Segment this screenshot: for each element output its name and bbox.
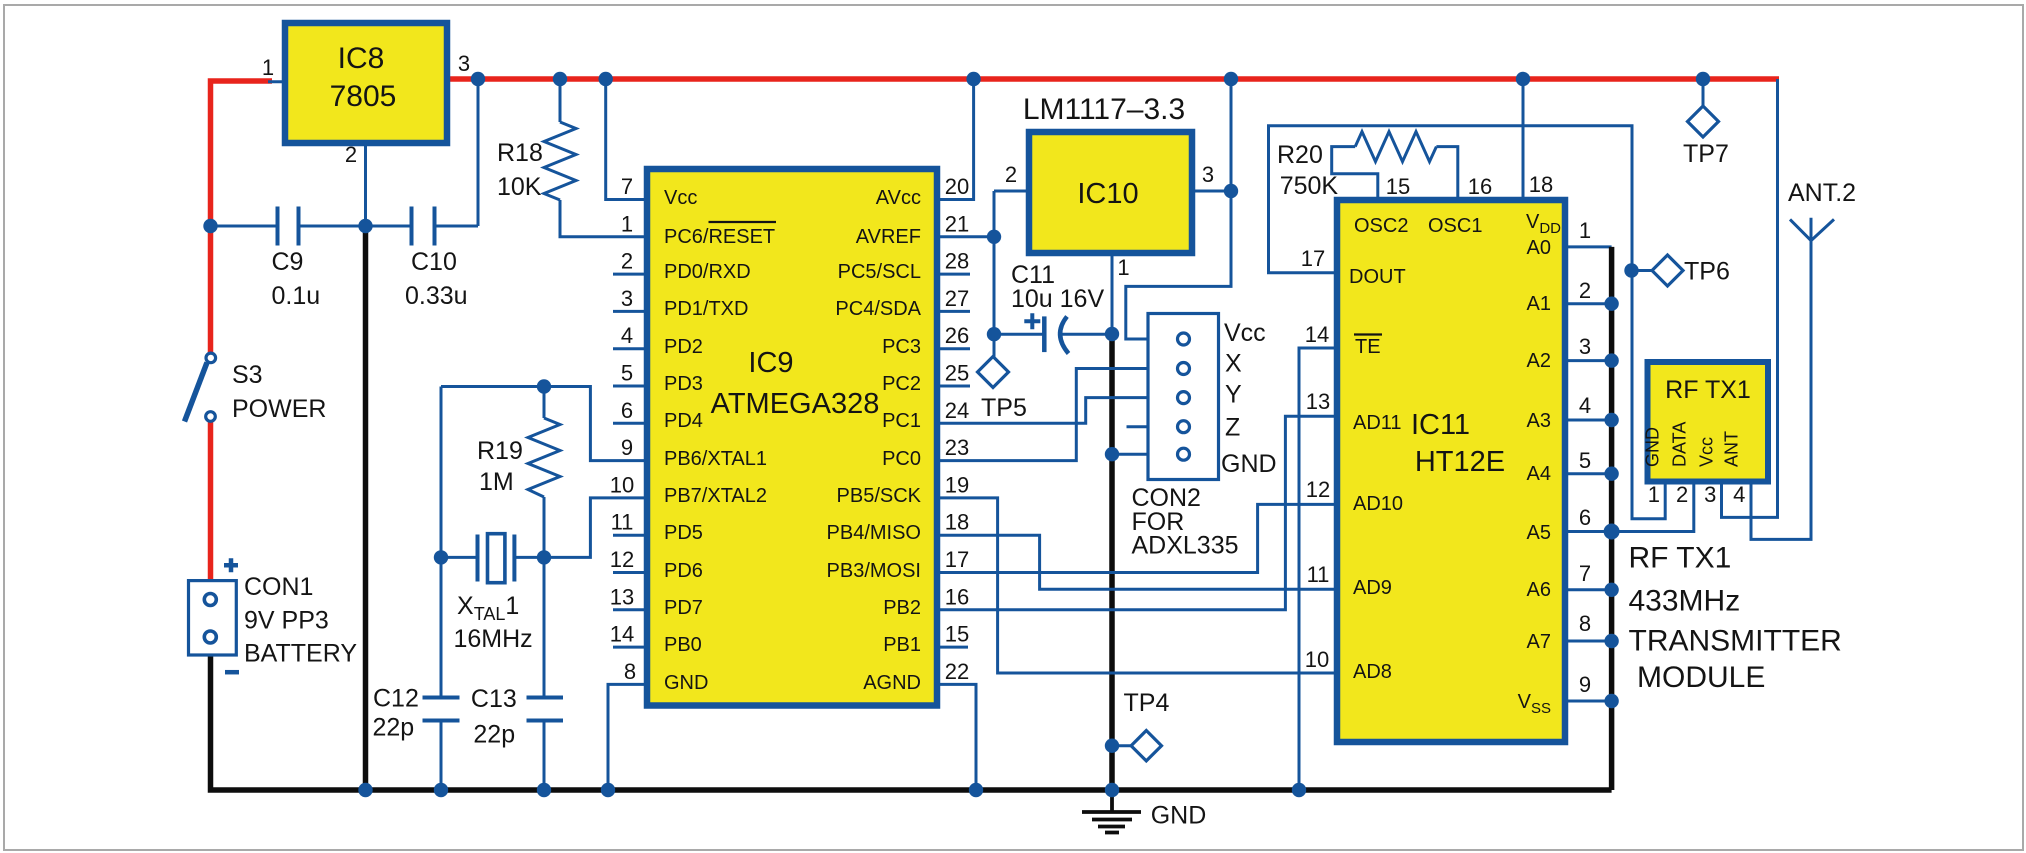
svg-text:GND: GND — [1221, 450, 1277, 478]
wire IC9 pin23 PC0 to CON2 X — [937, 369, 1148, 461]
svg-text:PC4/SDA: PC4/SDA — [835, 298, 921, 320]
svg-text:C10: C10 — [411, 248, 457, 276]
svg-text:PC3: PC3 — [882, 336, 921, 358]
svg-text:4: 4 — [1579, 393, 1591, 418]
wire HT12E A3 stub — [1565, 419, 1612, 422]
wire TP5 stem — [993, 334, 996, 357]
wire R18 bottom to IC9 pin1 — [560, 200, 647, 237]
svg-text:AD11: AD11 — [1353, 412, 1402, 434]
svg-text:4: 4 — [1733, 482, 1745, 507]
svg-text:POWER: POWER — [232, 395, 326, 423]
svg-text:GND: GND — [664, 672, 708, 694]
wire HT12E A4 stub — [1565, 472, 1612, 475]
wire IC8 pin2 down to C9/C10 node — [364, 143, 367, 226]
svg-text:C9: C9 — [272, 248, 304, 276]
svg-text:9: 9 — [1579, 672, 1591, 697]
svg-text:OSC1: OSC1 — [1428, 215, 1482, 237]
svg-text:16MHz: 16MHz — [454, 625, 533, 653]
svg-text:C13: C13 — [471, 685, 517, 713]
svg-text:TE: TE — [1355, 336, 1381, 358]
svg-text:22: 22 — [945, 659, 969, 684]
svg-text:PB3/MOSI: PB3/MOSI — [827, 560, 921, 582]
svg-text:OSC2: OSC2 — [1354, 215, 1408, 237]
svg-text:Z: Z — [1225, 414, 1240, 442]
node CON2 GND junction — [1105, 447, 1119, 461]
node AVREF junction — [987, 230, 1001, 244]
svg-text:2: 2 — [1005, 162, 1017, 187]
wire IC9 pin8 GND to bus — [608, 684, 647, 790]
wire C9/C10 row — [211, 79, 479, 226]
wire R19 leads — [543, 387, 546, 558]
svg-text:A6: A6 — [1527, 579, 1551, 601]
svg-text:MODULE: MODULE — [1637, 661, 1765, 694]
svg-text:PD4: PD4 — [664, 410, 703, 432]
test point TP4 — [1131, 731, 1161, 761]
resistor R19 — [528, 418, 560, 497]
wire IC9 pin22 AGND to bus — [937, 684, 976, 790]
svg-text:A4: A4 — [1527, 463, 1551, 485]
svg-text:AD10: AD10 — [1353, 493, 1403, 515]
svg-text:A3: A3 — [1527, 410, 1551, 432]
svg-text:R18: R18 — [497, 139, 543, 167]
svg-text:18: 18 — [945, 510, 969, 535]
resistor R18 — [544, 122, 576, 200]
svg-text:11: 11 — [611, 510, 634, 535]
wire battery + red segment — [208, 422, 214, 582]
svg-text:S3: S3 — [232, 361, 263, 389]
svg-text:5: 5 — [1579, 448, 1591, 473]
svg-text:Vcc: Vcc — [664, 187, 697, 209]
svg-text:R19: R19 — [477, 437, 523, 465]
wire HT12E A0 stub — [1565, 245, 1612, 248]
wire HT12E A2 stub — [1565, 359, 1612, 362]
wire HT12E pin14 TE to ground bus — [1299, 348, 1337, 790]
svg-text:19: 19 — [945, 472, 969, 497]
svg-text:17: 17 — [945, 547, 969, 572]
wire RF TX1 pin3 Vcc to rail — [1722, 79, 1778, 517]
svg-text:10: 10 — [1305, 647, 1329, 672]
wire R18 top — [559, 79, 562, 122]
svg-text:27: 27 — [945, 286, 969, 311]
svg-text:HT12E: HT12E — [1415, 446, 1505, 478]
svg-text:15: 15 — [945, 622, 969, 647]
svg-text:DATA: DATA — [1670, 422, 1690, 467]
svg-text:750K: 750K — [1280, 172, 1339, 200]
wire +9V/+5V red rail — [211, 81, 273, 353]
node A-line junctions — [1604, 297, 1618, 311]
wire CON2 Z stub — [1127, 425, 1149, 428]
svg-text:0.33u: 0.33u — [405, 282, 468, 310]
svg-text:7: 7 — [1579, 561, 1591, 586]
node TP6 junction — [1624, 263, 1638, 277]
svg-text:6: 6 — [621, 398, 633, 423]
svg-text:PB0: PB0 — [664, 634, 702, 656]
svg-text:24: 24 — [945, 398, 969, 423]
svg-text:5: 5 — [621, 361, 633, 386]
wire crystal left lead — [441, 556, 478, 559]
svg-text:10K: 10K — [497, 173, 542, 201]
svg-text:16: 16 — [945, 584, 969, 609]
wire IC9 pin24 PC1 to CON2 Y — [937, 398, 1148, 424]
svg-text:PD3: PD3 — [664, 373, 703, 395]
svg-text:10u 16V: 10u 16V — [1011, 285, 1104, 313]
svg-text:TP5: TP5 — [981, 394, 1027, 422]
svg-text:14: 14 — [610, 622, 634, 647]
svg-text:0.1u: 0.1u — [272, 282, 321, 310]
ground symbol — [1082, 790, 1141, 833]
svg-text:R20: R20 — [1277, 141, 1323, 169]
svg-text:AVREF: AVREF — [856, 226, 921, 248]
svg-text:28: 28 — [945, 249, 969, 274]
voltage regulator IC8 7805 — [285, 23, 447, 143]
svg-text:TP6: TP6 — [1684, 258, 1730, 286]
svg-text:13: 13 — [1306, 389, 1330, 414]
svg-text:ADXL335: ADXL335 — [1132, 532, 1239, 560]
svg-text:TRANSMITTER: TRANSMITTER — [1629, 625, 1842, 658]
svg-text:AVcc: AVcc — [876, 187, 921, 209]
svg-text:3: 3 — [1704, 482, 1716, 507]
svg-text:9V PP3: 9V PP3 — [244, 607, 329, 635]
capacitor C11 (polarized) — [1042, 316, 1047, 352]
svg-text:IC9: IC9 — [748, 347, 793, 379]
voltage regulator IC10 LM1117-3.3 — [1029, 132, 1192, 253]
wire IC9 pin17 MOSI to HT12E AD10 — [937, 504, 1337, 572]
svg-text:3: 3 — [1202, 162, 1214, 187]
svg-text:2: 2 — [345, 142, 357, 167]
svg-text:ANT.2: ANT.2 — [1788, 179, 1856, 207]
node rail junctions — [471, 72, 485, 86]
wire IC10 pin1 to C11 node — [1111, 253, 1114, 334]
resistor R20 — [1355, 132, 1436, 162]
svg-text:9: 9 — [621, 435, 633, 460]
svg-text:8: 8 — [1579, 611, 1591, 636]
wire IC9 pin19 SCK to HT12E AD8 — [937, 498, 1337, 673]
capacitor C9 — [278, 207, 299, 246]
wire IC8 pin1 stub — [268, 80, 285, 83]
svg-text:IC10: IC10 — [1077, 178, 1138, 210]
svg-text:DOUT: DOUT — [1349, 266, 1406, 288]
wire HT12E pin9 VSS stub — [1565, 700, 1612, 703]
svg-text:2: 2 — [1579, 278, 1591, 303]
svg-text:PD5: PD5 — [664, 522, 703, 544]
svg-text:LM1117–3.3: LM1117–3.3 — [1023, 93, 1185, 126]
svg-text:PD2: PD2 — [664, 336, 703, 358]
svg-text:ANT: ANT — [1722, 431, 1742, 467]
svg-text:15: 15 — [1386, 174, 1410, 199]
svg-text:7805: 7805 — [330, 80, 397, 113]
svg-text:A1: A1 — [1527, 293, 1551, 315]
svg-text:PB5/SCK: PB5/SCK — [837, 485, 922, 507]
svg-text:AGND: AGND — [863, 672, 921, 694]
wire IC10 pin3 to rail and to CON2 Vcc — [1126, 79, 1231, 339]
svg-text:1: 1 — [262, 55, 274, 80]
encoder IC11 HT12E — [1337, 200, 1565, 742]
svg-text:22p: 22p — [473, 721, 515, 749]
svg-text:12: 12 — [610, 547, 634, 572]
wire R20 right lead to pin16 OSC1 — [1436, 147, 1457, 200]
svg-text:17: 17 — [1301, 246, 1325, 271]
svg-text:Y: Y — [1225, 381, 1242, 409]
svg-text:IC11: IC11 — [1411, 409, 1470, 441]
wire HT12E A1 stub — [1565, 302, 1612, 305]
svg-text:A5: A5 — [1527, 522, 1551, 544]
svg-text:Vcc: Vcc — [1696, 437, 1716, 467]
svg-text:23: 23 — [945, 435, 969, 460]
svg-text:1: 1 — [1117, 255, 1129, 280]
node IC10 pin3 junction — [1224, 184, 1238, 198]
svg-text:7: 7 — [621, 174, 633, 199]
svg-text:14: 14 — [1305, 322, 1329, 347]
svg-text:1M: 1M — [479, 468, 514, 496]
svg-text:AD8: AD8 — [1353, 661, 1392, 683]
svg-text:21: 21 — [945, 211, 969, 236]
wire TP6 stem — [1632, 269, 1653, 272]
svg-text:AD9: AD9 — [1353, 577, 1392, 599]
wire black from C9/C10 node to ground bus — [363, 226, 369, 790]
transmitter module RF TX1 — [1648, 362, 1769, 482]
node C9/C10 row junctions — [203, 219, 217, 233]
capacitor C10 — [412, 207, 435, 246]
svg-text:C12: C12 — [373, 685, 419, 713]
svg-text:10: 10 — [610, 472, 634, 497]
svg-text:IC8: IC8 — [338, 42, 385, 75]
svg-text:PB7/XTAL2: PB7/XTAL2 — [664, 485, 767, 507]
wire IC9 pin10 PB7-XTAL2 to crystal right — [514, 498, 647, 558]
CON1 plus sign — [224, 558, 238, 572]
wire crystal loop top / IC9 pin9 PB6-XTAL1 — [441, 387, 647, 461]
svg-text:RF TX1: RF TX1 — [1629, 542, 1732, 575]
wire TP4 stem — [1112, 744, 1132, 747]
svg-text:X: X — [1225, 350, 1242, 378]
wire HT12E A7 stub — [1565, 640, 1612, 643]
svg-text:6: 6 — [1579, 505, 1591, 530]
node ground bus junctions — [358, 783, 372, 797]
svg-text:1: 1 — [621, 211, 633, 236]
svg-text:25: 25 — [945, 361, 969, 386]
wire C13 branch — [543, 557, 546, 790]
wire IC9 pin18 MISO to HT12E AD9 — [937, 535, 1337, 589]
svg-text:A2: A2 — [1527, 350, 1551, 372]
test point TP7 — [1688, 106, 1719, 137]
svg-text:11: 11 — [1307, 562, 1330, 587]
svg-text:RF TX1: RF TX1 — [1665, 376, 1751, 404]
svg-text:1: 1 — [1648, 482, 1660, 507]
svg-text:3: 3 — [621, 286, 633, 311]
svg-text:4: 4 — [621, 323, 633, 348]
svg-text:PB1: PB1 — [883, 634, 921, 656]
capacitor C13 — [527, 698, 564, 721]
wire IC9 pin16 PB2 to HT12E AD11 — [937, 416, 1337, 610]
antenna ANT.2 — [1790, 218, 1834, 241]
svg-text:PB4/MISO: PB4/MISO — [827, 522, 921, 544]
svg-text:Vcc: Vcc — [1224, 319, 1266, 347]
svg-text:3: 3 — [458, 51, 470, 76]
svg-text:BATTERY: BATTERY — [244, 640, 357, 668]
capacitor C12 — [423, 698, 460, 721]
svg-text:2: 2 — [1676, 482, 1688, 507]
svg-text:8: 8 — [624, 659, 636, 684]
svg-text:22p: 22p — [373, 714, 415, 742]
wire +5V rail from IC8 pin3 to right end — [447, 76, 1779, 82]
wire IC9 pin21 AVREF to IC10 pin2 net — [937, 191, 1029, 356]
wire rail to IC9 pin7 Vcc — [606, 79, 647, 200]
wire rail to HT12E pin18 VDD — [1522, 79, 1525, 200]
crystal XTAL1 — [478, 535, 515, 582]
svg-text:1: 1 — [1579, 218, 1591, 243]
svg-text:PD6: PD6 — [664, 560, 703, 582]
wire black A0-A7 ground ladder and bottom bus — [211, 247, 1612, 790]
test point TP5 — [978, 357, 1009, 388]
svg-text:A0: A0 — [1527, 237, 1551, 259]
node C11 junctions — [987, 327, 1001, 341]
svg-text:13: 13 — [610, 584, 634, 609]
svg-text:GND: GND — [1643, 427, 1663, 467]
svg-text:3: 3 — [1579, 334, 1591, 359]
svg-text:GND: GND — [1151, 802, 1207, 830]
wire HT12E A6 stub — [1565, 588, 1612, 591]
svg-text:12: 12 — [1306, 477, 1330, 502]
wire IC9 left floating pin stubs — [613, 274, 647, 647]
connector CON1 — [189, 581, 237, 655]
wire C11 row — [994, 333, 1112, 336]
svg-text:PC5/SCL: PC5/SCL — [838, 261, 921, 283]
svg-text:PC1: PC1 — [882, 410, 921, 432]
svg-text:433MHz: 433MHz — [1629, 585, 1741, 618]
svg-text:CON1: CON1 — [244, 573, 313, 601]
wire IC9 right floating pin stubs — [937, 274, 970, 647]
node TP4 junction — [1105, 739, 1119, 753]
wire RF TX1 pin4 to antenna — [1751, 241, 1811, 540]
wire TP7 stem — [1702, 79, 1705, 106]
wire CON2 GND to black line — [1112, 453, 1148, 456]
svg-text:TP4: TP4 — [1124, 689, 1170, 717]
svg-text:TP7: TP7 — [1683, 140, 1729, 168]
svg-text:PD7: PD7 — [664, 597, 703, 619]
microcontroller IC9 ATMEGA328 — [647, 169, 937, 706]
wire crystal left branch — [440, 387, 443, 791]
svg-text:PD1/TXD: PD1/TXD — [664, 298, 748, 320]
node crystal junctions — [537, 379, 551, 393]
svg-text:PB2: PB2 — [883, 597, 921, 619]
svg-text:2: 2 — [621, 249, 633, 274]
svg-text:A7: A7 — [1527, 631, 1551, 653]
svg-text:PD0/RXD: PD0/RXD — [664, 261, 751, 283]
svg-text:18: 18 — [1529, 172, 1553, 197]
CON1 minus sign — [225, 670, 239, 675]
test point TP6 — [1652, 255, 1683, 286]
svg-text:26: 26 — [945, 323, 969, 348]
svg-text:PC2: PC2 — [882, 373, 921, 395]
wire HT12E DOUT over the top to TP6 and RF DATA — [1269, 126, 1666, 519]
wire R20 left lead to pin15 OSC2 — [1332, 147, 1378, 200]
wire black main vertical C11/TP4 to ground — [1109, 334, 1115, 790]
svg-text:16: 16 — [1468, 174, 1492, 199]
svg-text:20: 20 — [945, 174, 969, 199]
wire rail to IC9 pin20 AVcc — [937, 79, 974, 200]
svg-text:PC6/RESET: PC6/RESET — [664, 226, 775, 248]
switch S3 — [185, 363, 208, 422]
svg-text:ATMEGA328: ATMEGA328 — [711, 388, 880, 420]
connector CON2 — [1148, 314, 1219, 480]
svg-text:PB6/XTAL1: PB6/XTAL1 — [664, 448, 767, 470]
svg-text:PC0: PC0 — [882, 448, 921, 470]
C11 plus sign — [1024, 313, 1040, 329]
wire HT12E A5 stub and RF TX1 pin1 GND — [1565, 482, 1694, 532]
